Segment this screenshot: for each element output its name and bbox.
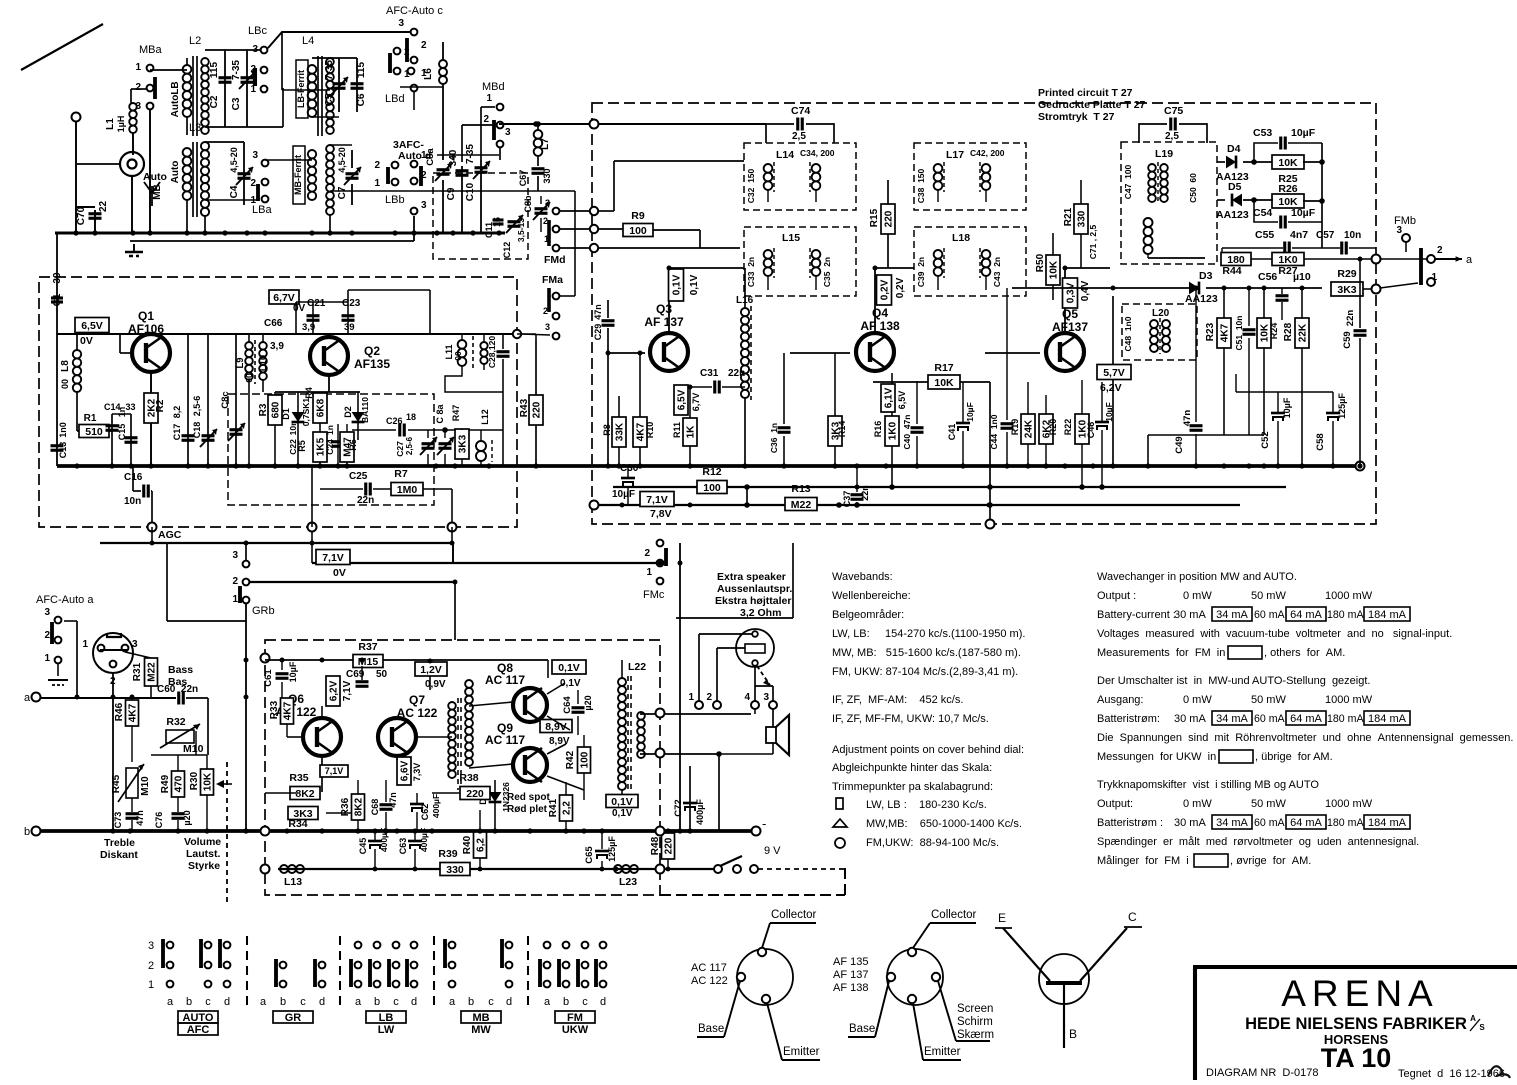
svg-text:3: 3 (252, 150, 258, 161)
svg-text:R46: R46 (114, 702, 125, 721)
svg-text:R39: R39 (438, 848, 457, 860)
svg-text:Base: Base (849, 1023, 875, 1035)
svg-text:d: d (600, 996, 606, 1008)
svg-text:22n: 22n (1345, 310, 1356, 327)
svg-text:LBa: LBa (252, 204, 272, 216)
svg-text:60 mA: 60 mA (1254, 817, 1286, 829)
svg-text:Auto: Auto (170, 161, 181, 184)
svg-text:AA123: AA123 (1185, 293, 1218, 305)
svg-text:R44: R44 (1222, 265, 1241, 277)
svg-text:R36: R36 (340, 797, 351, 816)
svg-text:b: b (186, 996, 192, 1008)
svg-text:D5: D5 (1228, 181, 1242, 193)
svg-text:0,1V: 0,1V (611, 796, 633, 808)
svg-text:Batteristrøm :: Batteristrøm : (1097, 817, 1163, 829)
svg-text:R34: R34 (288, 818, 307, 830)
svg-text:R17: R17 (934, 362, 953, 374)
svg-text:R12: R12 (702, 466, 721, 478)
svg-text:AF 137: AF 137 (644, 315, 684, 329)
svg-text:0 mW: 0 mW (1183, 798, 1212, 810)
svg-text:AC 117: AC 117 (485, 673, 525, 687)
svg-text:1K0: 1K0 (1278, 254, 1297, 266)
svg-text:6,7V: 6,7V (273, 292, 295, 304)
svg-text:1n0: 1n0 (58, 422, 68, 438)
svg-text:330: 330 (1077, 210, 1088, 227)
svg-text:1: 1 (82, 639, 88, 650)
svg-text:2,2: 2,2 (562, 801, 573, 815)
svg-text:510: 510 (85, 426, 103, 438)
svg-text:a: a (355, 996, 362, 1008)
svg-text:C31: C31 (700, 368, 719, 379)
svg-text:3: 3 (135, 101, 141, 112)
svg-text:6K8: 6K8 (316, 398, 327, 417)
svg-text:b: b (468, 996, 474, 1008)
svg-text:3: 3 (545, 322, 550, 332)
svg-text:AF 138: AF 138 (860, 319, 900, 333)
svg-text:0,1V: 0,1V (689, 274, 700, 295)
svg-text:Målinger for FM i: Målinger for FM i (1097, 855, 1189, 867)
svg-text:C52: C52 (1260, 431, 1271, 448)
svg-text:C39 2n: C39 2n (916, 257, 926, 287)
svg-text:L13: L13 (284, 876, 302, 888)
svg-text:8K2: 8K2 (354, 797, 365, 816)
svg-text:100: 100 (629, 225, 647, 237)
svg-text:AA123: AA123 (1216, 209, 1249, 221)
svg-text:C25: C25 (349, 471, 368, 482)
svg-text:AF135: AF135 (354, 357, 390, 371)
svg-text:Q7: Q7 (409, 693, 425, 707)
svg-text:2: 2 (421, 170, 427, 181)
svg-text:6,1V: 6,1V (884, 387, 895, 408)
svg-text:FM,UKW: 88-94-100 Mc/s.: FM,UKW: 88-94-100 Mc/s. (866, 837, 999, 849)
svg-text:GRb: GRb (252, 605, 275, 617)
svg-text:L14: L14 (776, 149, 794, 161)
svg-text:115: 115 (209, 61, 220, 78)
svg-text:50 mW: 50 mW (1251, 798, 1286, 810)
svg-text:C68: C68 (370, 799, 380, 816)
svg-text:Trimmepunkter pa skalabagrund:: Trimmepunkter pa skalabagrund: (832, 781, 993, 793)
svg-text:C17: C17 (172, 424, 182, 441)
svg-text:1: 1 (232, 594, 238, 605)
svg-text:2: 2 (148, 960, 154, 972)
svg-text:Collector: Collector (771, 909, 817, 921)
svg-text:3: 3 (398, 18, 404, 29)
svg-text:E: E (998, 911, 1006, 925)
svg-text:R5: R5 (297, 440, 307, 452)
svg-text:R42: R42 (565, 750, 576, 769)
svg-text:1n: 1n (117, 407, 127, 418)
svg-text:10K: 10K (1278, 196, 1298, 208)
svg-text:10µF: 10µF (965, 402, 975, 422)
svg-text:Skærm: Skærm (957, 1029, 994, 1041)
svg-text:LBc: LBc (248, 25, 267, 37)
svg-text:Printed circuit T 27: Printed circuit T 27 (1038, 87, 1133, 99)
svg-text:2: 2 (404, 47, 410, 58)
svg-text:Adjustment points on cover beh: Adjustment points on cover behind dial: (832, 744, 1024, 756)
svg-text:115: 115 (356, 61, 367, 78)
svg-text:C46: C46 (1086, 422, 1096, 439)
svg-text:IF, ZF, MF-AM: 452 kc/s.: IF, ZF, MF-AM: 452 kc/s. (832, 694, 963, 706)
svg-text:10µF: 10µF (1291, 207, 1316, 219)
svg-text:C5: C5 (324, 93, 335, 106)
svg-text:LBb: LBb (385, 194, 405, 206)
svg-text:C76: C76 (154, 812, 164, 829)
svg-text:1µH: 1µH (116, 116, 126, 133)
svg-text:330: 330 (542, 168, 552, 183)
svg-text:d: d (319, 996, 325, 1008)
svg-text:L4: L4 (302, 35, 314, 47)
svg-text:µ10: µ10 (1293, 271, 1311, 283)
svg-text:Auto: Auto (143, 171, 167, 183)
svg-text:, übrige for AM.: , übrige for AM. (1255, 751, 1333, 763)
svg-text:50 mW: 50 mW (1251, 694, 1286, 706)
svg-text:8,2: 8,2 (172, 406, 182, 419)
svg-text:3,5-13: 3,5-13 (516, 218, 526, 242)
svg-text:6,5V: 6,5V (81, 320, 103, 332)
svg-text:64 mA: 64 mA (1290, 609, 1322, 621)
svg-text:Measurements for FM in: Measurements for FM in (1097, 647, 1225, 659)
svg-text:C: C (1128, 910, 1137, 924)
svg-text:a: a (260, 996, 267, 1008)
svg-text:4K7: 4K7 (1220, 323, 1231, 342)
svg-text:0,9V: 0,9V (425, 679, 446, 690)
svg-text:10n: 10n (1344, 230, 1361, 241)
svg-text:L15: L15 (782, 232, 800, 244)
svg-text:C10: C10 (465, 182, 476, 201)
svg-text:R10: R10 (645, 422, 655, 439)
svg-text:LB-Ferrit: LB-Ferrit (296, 70, 306, 108)
svg-text:0V: 0V (333, 567, 346, 579)
svg-text:C74: C74 (791, 105, 810, 117)
svg-text:0,2V: 0,2V (880, 279, 891, 300)
svg-text:c: c (300, 996, 306, 1008)
svg-text:Aussenlautspr.: Aussenlautspr. (717, 583, 792, 595)
svg-text:R1: R1 (84, 413, 97, 424)
svg-text:b: b (563, 996, 569, 1008)
svg-text:1n: 1n (325, 425, 335, 435)
svg-text:c: c (488, 996, 494, 1008)
svg-text:0 mW: 0 mW (1183, 694, 1212, 706)
svg-text:R40: R40 (462, 835, 473, 854)
svg-text:GR: GR (285, 1012, 302, 1024)
svg-text:L20: L20 (1152, 308, 1170, 319)
svg-text:R35: R35 (289, 772, 308, 784)
svg-text:D3: D3 (1199, 270, 1213, 282)
svg-text:L22: L22 (628, 661, 646, 673)
svg-text:3: 3 (232, 550, 238, 561)
svg-text:1: 1 (646, 567, 652, 578)
svg-text:2: 2 (483, 114, 489, 125)
svg-text:7-35: 7-35 (324, 60, 335, 80)
svg-text:LB: LB (170, 81, 181, 94)
svg-text:AC 122: AC 122 (397, 706, 438, 720)
svg-text:184 mA: 184 mA (1368, 609, 1407, 621)
svg-text:LW, LB: 154-270 kc/s.(1100: LW, LB: 154-270 kc/s.(1100-1950 m). (832, 628, 1025, 640)
svg-text:180 mA: 180 mA (1327, 713, 1364, 725)
svg-text:1: 1 (148, 979, 154, 991)
svg-text:R16: R16 (873, 421, 883, 438)
svg-text:39: 39 (344, 322, 355, 333)
svg-text:Rød plet: Rød plet (507, 804, 548, 815)
svg-text:47n: 47n (593, 304, 603, 320)
svg-text:L6: L6 (423, 68, 434, 80)
svg-text:1: 1 (486, 93, 492, 104)
svg-text:Battery-current :: Battery-current : (1097, 609, 1176, 621)
svg-text:C63: C63 (398, 838, 408, 855)
svg-text:0,1V: 0,1V (612, 808, 633, 819)
svg-text:C49: C49 (1174, 436, 1185, 453)
svg-text:DIAGRAM NR D-0178: DIAGRAM NR D-0178 (1206, 1067, 1318, 1079)
svg-text:HEDE NIELSENS FABRIKER: HEDE NIELSENS FABRIKER (1245, 1015, 1467, 1033)
svg-text:C43 2n: C43 2n (992, 257, 1002, 287)
svg-text:C47 100: C47 100 (1123, 164, 1133, 199)
svg-text:Bass: Bass (168, 664, 193, 676)
svg-text:, others for AM.: , others for AM. (1264, 647, 1345, 659)
svg-text:C65: C65 (584, 846, 595, 864)
svg-text:22n: 22n (357, 495, 374, 506)
svg-text:Base: Base (698, 1023, 724, 1035)
svg-text:2,5-6: 2,5-6 (192, 396, 202, 417)
svg-text:R30: R30 (189, 771, 200, 790)
svg-text:0,4V: 0,4V (1080, 280, 1091, 301)
svg-text:Output:: Output: (1097, 798, 1133, 810)
svg-text:C57: C57 (1316, 230, 1335, 241)
svg-text:7,1V: 7,1V (342, 680, 353, 701)
svg-text:C12: C12 (502, 242, 512, 259)
svg-text:µ20: µ20 (182, 810, 192, 825)
svg-text:M22: M22 (147, 662, 158, 682)
svg-text:30 mA: 30 mA (1174, 609, 1206, 621)
svg-text:8K2: 8K2 (295, 788, 314, 800)
svg-text:50: 50 (376, 669, 388, 680)
svg-text:AC 122: AC 122 (691, 975, 728, 987)
svg-text:LW, LB : 180-230 Kc/s.: LW, LB : 180-230 Kc/s. (866, 799, 987, 811)
svg-text:B: B (1069, 1027, 1077, 1041)
svg-text:3: 3 (505, 127, 511, 138)
svg-text:Screen: Screen (957, 1003, 993, 1015)
svg-text:R38: R38 (459, 772, 478, 784)
svg-text:6,2V: 6,2V (1100, 382, 1122, 394)
svg-text:C8a: C8a (425, 148, 436, 166)
svg-text:1: 1 (374, 178, 380, 189)
svg-text:C21: C21 (307, 298, 326, 309)
svg-text:1K: 1K (686, 425, 697, 439)
svg-text:0,7SK1: 0,7SK1 (301, 398, 311, 427)
svg-text:125µF: 125µF (607, 836, 617, 862)
svg-text:R9: R9 (631, 210, 645, 222)
svg-text:b: b (374, 996, 380, 1008)
svg-text:C48 1n0: C48 1n0 (1123, 316, 1133, 351)
svg-text:R31: R31 (132, 662, 143, 681)
svg-text:c: c (205, 996, 211, 1008)
svg-text:a: a (1466, 254, 1473, 266)
svg-text:2: 2 (232, 576, 238, 587)
svg-text:C59: C59 (1342, 331, 1353, 348)
svg-text:330: 330 (446, 864, 464, 876)
svg-text:AGC: AGC (158, 529, 182, 541)
svg-text:A: A (1470, 1014, 1476, 1023)
svg-text:C66: C66 (264, 318, 283, 329)
svg-text:9 V: 9 V (764, 845, 781, 857)
svg-text:R7: R7 (394, 468, 408, 480)
svg-text:C8b: C8b (523, 195, 533, 213)
svg-text:M10: M10 (183, 743, 204, 755)
svg-text:M10: M10 (140, 776, 151, 796)
svg-text:0,1V: 0,1V (672, 274, 683, 295)
svg-text:AC 117: AC 117 (691, 962, 727, 974)
svg-text:180: 180 (1227, 254, 1245, 266)
svg-text:6,2: 6,2 (476, 838, 487, 852)
svg-text:1: 1 (44, 653, 50, 664)
svg-text:R19: R19 (1010, 419, 1020, 436)
svg-text:R20: R20 (1048, 419, 1058, 436)
svg-text:a: a (449, 996, 456, 1008)
svg-text:FM: FM (567, 1012, 583, 1024)
svg-text:-: - (762, 816, 766, 831)
svg-text:4K7: 4K7 (128, 703, 139, 722)
svg-text:FM, UKW: 87-104 Mc/s.(2,89-3,4: FM, UKW: 87-104 Mc/s.(2,89-3,41 m). (832, 666, 1018, 678)
svg-text:47n: 47n (135, 810, 145, 826)
svg-text:Ekstra højttaler: Ekstra højttaler (715, 595, 791, 607)
svg-text:3: 3 (132, 639, 138, 650)
svg-text:2: 2 (644, 548, 650, 559)
svg-text:C22: C22 (288, 439, 298, 455)
svg-text:10µF: 10µF (612, 489, 635, 500)
svg-text:6,2V: 6,2V (329, 680, 340, 701)
svg-text:1: 1 (135, 62, 141, 73)
svg-text:2: 2 (135, 82, 141, 93)
svg-text:R49: R49 (160, 774, 171, 793)
svg-text:Lautst.: Lautst. (186, 848, 221, 860)
svg-text:Ausgang:: Ausgang: (1097, 694, 1143, 706)
svg-text:L3: L3 (189, 122, 201, 134)
svg-text:4,5-20: 4,5-20 (229, 147, 239, 173)
svg-text:3: 3 (148, 940, 154, 952)
svg-text:10K: 10K (1278, 157, 1298, 169)
svg-text:C58: C58 (1315, 433, 1326, 450)
svg-text:R50: R50 (1035, 253, 1046, 272)
svg-text:7-35: 7-35 (231, 60, 242, 80)
svg-text:1000 mW: 1000 mW (1325, 590, 1373, 602)
svg-text:100: 100 (703, 482, 721, 494)
svg-text:C18: C18 (192, 422, 202, 439)
svg-text:C73: C73 (113, 812, 123, 829)
svg-text:Wellenbereiche:: Wellenbereiche: (832, 590, 911, 602)
svg-text:C32 150: C32 150 (746, 168, 756, 203)
svg-text:2: 2 (44, 630, 50, 641)
svg-text:R41: R41 (548, 798, 559, 817)
svg-text:64 mA: 64 mA (1290, 817, 1322, 829)
svg-text:00: 00 (60, 379, 70, 389)
svg-text:2,5: 2,5 (792, 131, 806, 142)
svg-text:MBa: MBa (139, 44, 163, 56)
svg-text:34 mA: 34 mA (1216, 817, 1248, 829)
svg-text:Wavebands:: Wavebands: (832, 571, 893, 583)
svg-text:Gedruckte Platte T 27: Gedruckte Platte T 27 (1038, 99, 1146, 111)
svg-text:0,2V: 0,2V (895, 277, 906, 298)
svg-text:R22: R22 (1063, 419, 1073, 436)
svg-text:4,5-20: 4,5-20 (337, 147, 347, 173)
svg-text:L18: L18 (952, 232, 970, 244)
svg-text:4K7: 4K7 (283, 701, 294, 720)
svg-text:100: 100 (580, 751, 591, 768)
svg-text:AF 135: AF 135 (833, 956, 868, 968)
svg-text:4: 4 (744, 692, 750, 703)
svg-text:C35 2n: C35 2n (822, 257, 832, 287)
svg-text:Auto: Auto (170, 95, 181, 118)
svg-text:1000 mW: 1000 mW (1325, 798, 1373, 810)
svg-text:0,1V: 0,1V (558, 662, 580, 674)
svg-text:c: c (393, 996, 399, 1008)
svg-text:7,8V: 7,8V (650, 508, 672, 520)
svg-text:FMd: FMd (544, 254, 566, 266)
svg-text:3,9: 3,9 (270, 341, 284, 352)
svg-text:L23: L23 (619, 876, 637, 888)
svg-text:7,3V: 7,3V (412, 763, 422, 782)
svg-text:d: d (506, 996, 512, 1008)
svg-text:C71 , 2,5: C71 , 2,5 (1088, 224, 1098, 259)
svg-text:R8: R8 (602, 424, 612, 436)
svg-text:FMa: FMa (542, 274, 563, 286)
svg-text:C72: C72 (673, 799, 684, 816)
svg-text:Output :: Output : (1097, 590, 1136, 602)
svg-text:Trykknapomskifter vist i sti: Trykknapomskifter vist i stilling MB og … (1097, 779, 1319, 791)
svg-text:d: d (224, 996, 230, 1008)
svg-text:Styrke: Styrke (188, 860, 220, 872)
svg-text:a: a (167, 996, 174, 1008)
svg-text:C8c: C8c (220, 391, 231, 408)
svg-text:Red spot: Red spot (507, 792, 550, 803)
svg-text:Stromtryk T 27: Stromtryk T 27 (1038, 111, 1115, 123)
svg-text:60 mA: 60 mA (1254, 609, 1286, 621)
svg-text:C50 60: C50 60 (1188, 173, 1198, 203)
svg-text:24K: 24K (1024, 419, 1035, 438)
svg-text:LB: LB (379, 1012, 394, 1024)
svg-text:2,5: 2,5 (1165, 131, 1179, 142)
svg-text:7-35: 7-35 (465, 144, 476, 164)
svg-text:R23: R23 (1205, 322, 1216, 341)
svg-text:2: 2 (1437, 245, 1443, 256)
svg-text:AFC-Auto c: AFC-Auto c (386, 5, 443, 17)
svg-text:5,7V: 5,7V (1103, 367, 1125, 379)
svg-text:6,5V: 6,5V (677, 389, 688, 410)
svg-text:0,3V: 0,3V (1066, 282, 1077, 303)
svg-text:R28: R28 (1283, 322, 1294, 341)
svg-text:ARENA: ARENA (1281, 973, 1438, 1014)
svg-text:C 8a: C 8a (435, 404, 445, 424)
svg-text:C70: C70 (76, 206, 87, 225)
svg-text:184 mA: 184 mA (1368, 713, 1407, 725)
svg-text:47n: 47n (1182, 410, 1193, 427)
svg-text:L19: L19 (1155, 148, 1173, 160)
svg-text:Volume: Volume (184, 836, 221, 848)
svg-text:34 mA: 34 mA (1216, 713, 1248, 725)
svg-text:3: 3 (1396, 225, 1402, 236)
svg-text:Voltages measured with vacu: Voltages measured with vacuum-tube voltm… (1097, 628, 1452, 640)
svg-text:22K: 22K (1298, 323, 1309, 342)
svg-text:a: a (544, 996, 551, 1008)
svg-text:Emitter: Emitter (924, 1046, 961, 1058)
svg-text:Diskant: Diskant (100, 849, 138, 861)
svg-text:MW,MB: 650-1000-1400 Kc/s.: MW,MB: 650-1000-1400 Kc/s. (866, 818, 1022, 830)
svg-text:R4: R4 (304, 387, 314, 399)
svg-text:LW: LW (378, 1024, 395, 1036)
svg-text:C28,120: C28,120 (487, 336, 497, 368)
svg-text:2: 2 (421, 40, 427, 51)
svg-text:AC 117: AC 117 (485, 733, 525, 747)
svg-text:Emitter: Emitter (783, 1046, 820, 1058)
svg-text:400µF: 400µF (695, 799, 705, 825)
